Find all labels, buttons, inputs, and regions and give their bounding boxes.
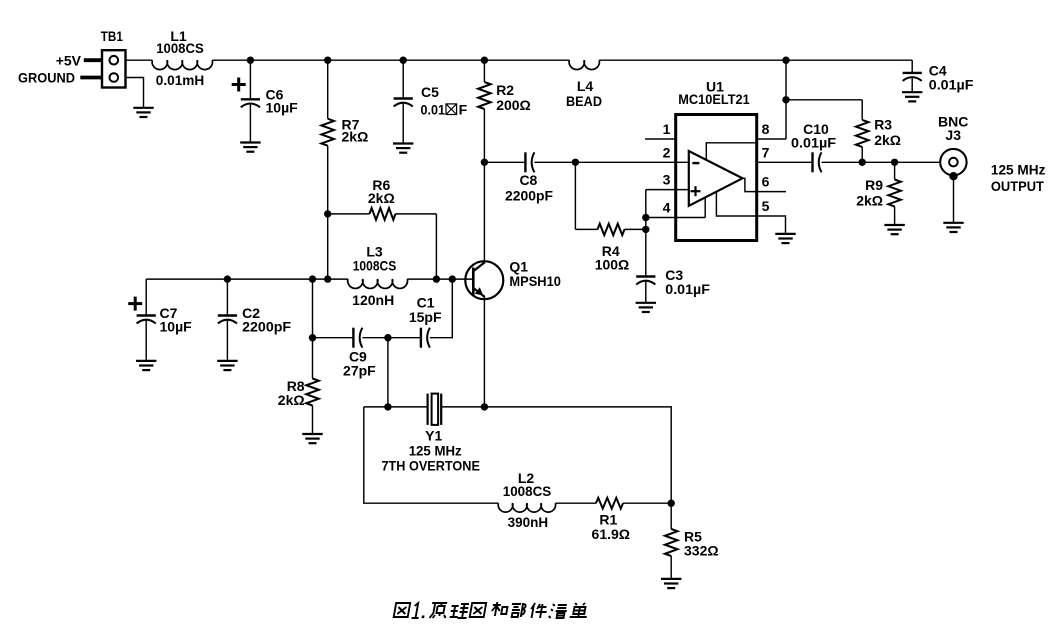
svg-text:Q1: Q1 (509, 259, 528, 275)
resistor R6 2k (324, 210, 331, 217)
wire rail L4 to C4 corner (599, 59, 912, 61)
wire C10 to BNC (822, 161, 942, 163)
pin 1 stub (645, 138, 676, 140)
pin 3 stub (646, 189, 689, 191)
wire Q1 emitter down to crystal line (483, 297, 485, 407)
capacitor C10 0.01uF (811, 152, 813, 172)
ground below R8 (302, 433, 322, 435)
svg-text:2kΩ: 2kΩ (874, 132, 901, 148)
svg-text:3: 3 (663, 172, 671, 188)
svg-text:R3: R3 (874, 117, 892, 133)
node rail2-C9 branch (309, 275, 316, 282)
svg-text:4: 4 (663, 200, 671, 216)
wire C9 to C1 (362, 337, 421, 339)
svg-text:15pF: 15pF (409, 309, 442, 325)
pin 5 stub from triangle (716, 192, 785, 234)
node C9-R8 (309, 334, 316, 341)
ground below C7 (136, 360, 156, 362)
terminal block TB1 (102, 50, 126, 87)
wire R6 down to base line (435, 214, 437, 279)
node C8-R4 branch (572, 159, 579, 166)
node rail-R7 (324, 57, 331, 64)
interior wire triangle to box edge (706, 143, 756, 161)
node R4-C3-pins (642, 226, 649, 233)
capacitor C2 2200pF (226, 279, 228, 315)
pin 6 stub from apex (743, 178, 787, 191)
svg-text:0.01: 0.01 (421, 102, 446, 118)
wire down to crystal line (387, 338, 389, 407)
node crystal-C9 branch (384, 403, 391, 410)
svg-text:R9: R9 (865, 177, 883, 193)
ground below pin 5 (775, 233, 795, 235)
svg-text:6: 6 (762, 174, 770, 190)
node rail-C6 (247, 57, 254, 64)
wire R1 to R5 node (623, 502, 671, 504)
transistor Q1 MPSH10 (465, 261, 503, 299)
svg-text:F: F (459, 102, 468, 118)
plus sign non-inverting input (691, 190, 701, 192)
GROUND input stub (80, 76, 101, 80)
wire +5V rail L1 to L4 (212, 59, 569, 61)
wire branch to R3 (786, 99, 862, 101)
svg-text:1008CS: 1008CS (353, 258, 397, 274)
svg-text:0.01µF: 0.01µF (791, 134, 836, 150)
svg-text:7: 7 (762, 144, 770, 160)
svg-text:TB1: TB1 (101, 28, 123, 44)
pin 4 stub (646, 217, 705, 219)
node emitter-crystal (481, 403, 488, 410)
ground below R5 (661, 578, 681, 580)
svg-text:0.01µF: 0.01µF (929, 77, 974, 93)
svg-text:OUTPUT: OUTPUT (991, 178, 1044, 194)
node R2-C8-collector (481, 159, 488, 166)
feedback loop left and bottom wire (364, 407, 499, 503)
wire crystal line right and down (441, 407, 671, 503)
svg-text:125 MHz: 125 MHz (409, 442, 462, 458)
resistor R3 2k (861, 100, 863, 120)
inductor L3 1008CS 120nH (348, 279, 408, 288)
capacitor C4 0.01uF (911, 60, 913, 73)
+5V input stub (84, 58, 102, 62)
wire to Q1 collector (483, 162, 485, 262)
svg-text:2kΩ: 2kΩ (278, 392, 305, 408)
resistor R8 2k (312, 338, 314, 379)
svg-text:J3: J3 (945, 127, 961, 143)
inductor L1 1008CS 0.01mH (152, 60, 212, 69)
ground below C4 (902, 91, 922, 93)
wire C1 up to base line (430, 279, 452, 338)
svg-text:100Ω: 100Ω (595, 256, 630, 272)
wire down to C9/R8 node (312, 279, 314, 338)
pin 7 stub (757, 161, 813, 163)
svg-text:332Ω: 332Ω (684, 543, 719, 559)
svg-text:10µF: 10µF (266, 99, 299, 115)
BNC connector J3 (940, 149, 966, 175)
ground below TB1 (133, 107, 153, 109)
capacitor C9 27pF (313, 337, 354, 339)
pin 4 riser to triangle (704, 197, 706, 217)
svg-text:5: 5 (762, 198, 770, 214)
riser pin3 to pin4 node (645, 190, 647, 230)
svg-text:Y1: Y1 (425, 427, 442, 443)
svg-text:R2: R2 (496, 82, 514, 98)
capacitor C1 15pF (420, 328, 422, 348)
svg-text:GROUND: GROUND (18, 69, 75, 85)
capacitor C6 10uF polarized (249, 60, 251, 99)
svg-text:C8: C8 (519, 172, 537, 188)
node rail2-C2 (224, 275, 231, 282)
resistor R4 100ohm (575, 228, 597, 230)
op-amp triangle inside U1 (689, 151, 743, 206)
node rail2-R7 bottom (324, 275, 331, 282)
node R1-R5 (668, 500, 675, 507)
wire TB1 to L1 (126, 59, 153, 61)
node rail-C5 (400, 57, 407, 64)
ground below C2 (217, 360, 237, 362)
ground below C3 (636, 302, 656, 304)
svg-text:2200pF: 2200pF (242, 318, 291, 334)
node C1-rail2 (449, 275, 456, 282)
wire C8 to U1 pin 2 (534, 161, 688, 163)
svg-text:390nH: 390nH (508, 514, 549, 530)
wire down to R4 (574, 162, 576, 229)
svg-text:2kΩ: 2kΩ (342, 129, 369, 145)
svg-text:7TH OVERTONE: 7TH OVERTONE (382, 457, 480, 473)
node C10-R3 (859, 159, 866, 166)
resistor R1 61.9ohm (596, 498, 623, 509)
svg-text:1: 1 (663, 121, 671, 137)
wire BNC shield to ground (953, 176, 955, 223)
svg-text:0.01mH: 0.01mH (156, 72, 205, 88)
svg-text:+5V: +5V (56, 52, 82, 68)
svg-text:1008CS: 1008CS (503, 483, 552, 499)
resistor R7 2k (327, 60, 329, 118)
svg-text:125 MHz: 125 MHz (991, 161, 1046, 177)
caption figure 1 schematic and parts list (394, 602, 590, 618)
svg-text:2200pF: 2200pF (505, 187, 553, 203)
node pin8-R3 branch (782, 96, 789, 103)
svg-text:2: 2 (663, 144, 671, 160)
svg-text:MPSH10: MPSH10 (509, 273, 561, 289)
resistor R2 200ohm (483, 60, 485, 82)
resistor R9 2k (894, 162, 896, 179)
ground below C6 (240, 141, 260, 143)
ferrite bead L4 (569, 60, 599, 69)
capacitor C8 2200pF (484, 161, 525, 163)
svg-text:2kΩ: 2kΩ (368, 190, 395, 206)
svg-text:1008CS: 1008CS (156, 40, 204, 56)
wire left bias rail (146, 278, 348, 280)
wire L3 to Q1 base (407, 278, 472, 280)
ground below R9 (884, 224, 904, 226)
svg-text:61.9Ω: 61.9Ω (592, 526, 630, 542)
svg-text:200Ω: 200Ω (496, 97, 531, 113)
svg-text:2kΩ: 2kΩ (856, 193, 883, 209)
svg-text:120nH: 120nH (352, 292, 394, 308)
ground below C5 (393, 142, 413, 144)
svg-text:10µF: 10µF (160, 318, 193, 334)
svg-text:L4: L4 (577, 78, 594, 94)
capacitor C7 10uF polarized (145, 279, 147, 315)
node pin4 (642, 214, 649, 221)
svg-text:BEAD: BEAD (566, 93, 602, 109)
inductor L2 1008CS 390nH (498, 503, 555, 512)
svg-text:0.01µF: 0.01µF (665, 281, 710, 297)
svg-text:MC10ELT21: MC10ELT21 (678, 91, 750, 107)
pin 8 stub (757, 138, 786, 140)
capacitor C3 0.01uF (645, 229, 647, 276)
svg-text:8: 8 (762, 121, 770, 137)
node rail-R2 (481, 57, 488, 64)
wire crystal line left (364, 406, 428, 408)
pin 8 riser to rail (785, 60, 787, 139)
node R6-rail2 (433, 275, 440, 282)
IC U1 MC10ELT21 box (676, 115, 757, 241)
svg-text:27pF: 27pF (343, 362, 376, 378)
wire L2 to R1 (555, 502, 596, 504)
node C9-C1-crystal branch (384, 334, 391, 341)
wire TB1 ground pin to ground (126, 78, 144, 108)
node R9 (891, 159, 898, 166)
capacitor C5 0.01uF (402, 60, 404, 98)
node rail-pin8 (782, 57, 789, 64)
resistor R5 332ohm (670, 503, 672, 529)
crystal Y1 125MHz (427, 394, 429, 425)
minus sign inverting input (692, 162, 699, 164)
svg-text:C5: C5 (421, 84, 439, 100)
ground below BNC (943, 222, 963, 224)
